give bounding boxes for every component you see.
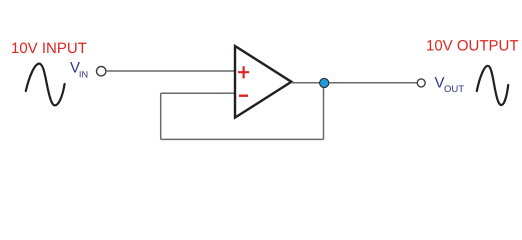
junction node (output/feedback) [320,78,329,87]
input AC sine wave symbol [26,64,65,106]
wire inverting input (feedback left segment) [161,92,235,94]
input terminal [97,67,106,76]
wire feedback left vertical [160,93,162,139]
wire feedback bottom horizontal [161,138,324,140]
svg-text:V: V [435,74,445,91]
op-amp U1 triangle [235,46,291,118]
wire feedback right vertical up to output node [323,83,325,139]
output AC sine wave symbol [477,66,508,105]
wire op-amp output to VOUT terminal [291,82,416,84]
svg-text:OUT: OUT [444,84,464,95]
op-amp - (inverting) marker [239,94,248,96]
output terminal [417,79,425,87]
svg-text:IN: IN [79,70,88,80]
wire VIN to op-amp + input [106,70,235,72]
svg-text:10V INPUT: 10V INPUT [11,40,87,57]
svg-text:10V OUTPUT: 10V OUTPUT [426,38,519,55]
op-amp + (non-inverting) marker [238,66,249,78]
